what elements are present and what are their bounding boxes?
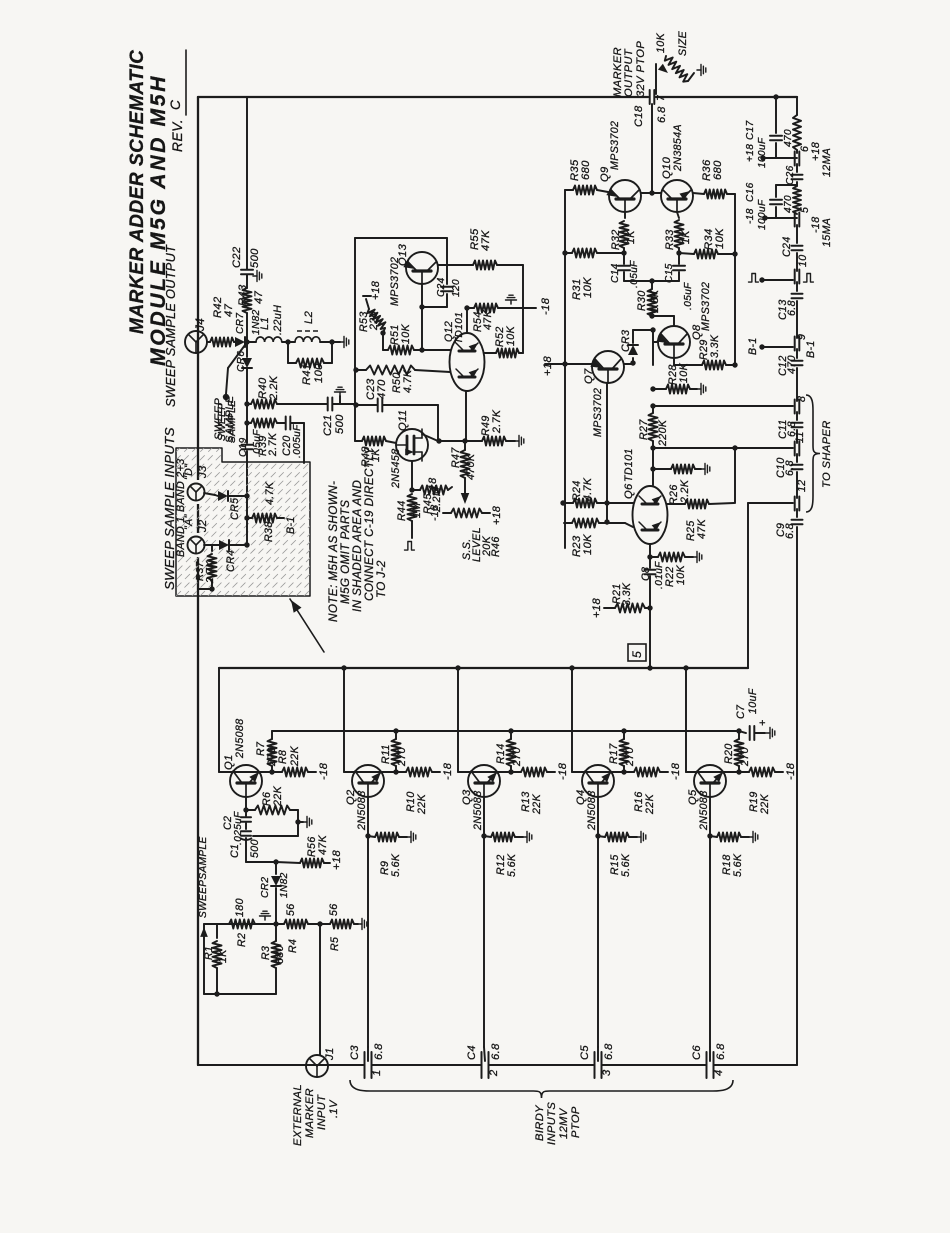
wire Q11 drain net [422,434,468,444]
svg-text:R5: R5 [329,937,341,951]
resistor R15 [598,832,646,843]
ground R54 [506,295,517,304]
label R4 [287,939,299,953]
label C16 [745,182,756,202]
note text line5 [375,560,388,598]
label Q7 type [592,388,604,437]
svg-text:R43: R43 [237,284,249,306]
ground C21 stub [335,387,346,404]
label C8 [640,567,652,581]
label CR2 [260,877,271,898]
label Q10 type [672,124,684,172]
svg-text:270: 270 [739,747,751,767]
label CR7 type [251,309,262,335]
svg-text:BAND 1: BAND 1 [175,516,187,557]
wire pin8 row [653,405,780,407]
wire Q6 lower base [607,523,633,527]
svg-text:MPS3702: MPS3702 [700,282,712,331]
size pot [656,56,706,94]
transistor Q12 dual [450,333,485,391]
wire bottom bus seg C5 [489,1064,595,1066]
label Q6 type [623,448,635,482]
svg-text:56: 56 [285,903,297,916]
wire pin12 row [748,502,793,504]
label R16 [633,791,645,812]
potentiometer R46 [443,509,490,518]
transistor Q10 [661,180,693,212]
svg-text:10uF: 10uF [747,688,759,714]
capacitor C10 [775,454,803,498]
label C4 value [490,1043,502,1060]
svg-text:C26: C26 [785,165,796,185]
label -18 (R19) [785,762,797,780]
transistor Q1 [230,765,262,797]
svg-text:OUTPUT: OUTPUT [623,48,635,97]
svg-text:56: 56 [328,903,340,916]
svg-text:C22: C22 [231,246,243,268]
svg-text:47K: 47K [317,834,329,855]
label MARKER [612,47,624,97]
wire Q3 base drop [484,1047,485,1061]
wire Q12 collector up [466,308,468,333]
capacitor pin8 [795,396,808,414]
svg-text:6.8: 6.8 [603,1043,615,1060]
label Q2 [345,789,357,805]
label B-1 (R38) [285,516,297,534]
transistor Q5 [694,765,726,797]
label R26 value [679,479,691,504]
resistor R56 [276,859,330,868]
label R2 value [234,898,246,917]
ground C22 [247,271,262,282]
svg-text:470: 470 [376,379,388,399]
label R48 value [370,448,382,462]
label Q11 type [390,448,402,489]
diode CR6 [242,342,252,404]
transistor Q4 [582,765,614,797]
label -18 (R16) [670,762,682,780]
label Q12 [443,321,455,342]
svg-text:R41: R41 [301,363,313,385]
capacitor C16 stub [762,185,797,221]
wire Q7 collector [624,360,636,365]
label L2 [303,310,315,324]
label C20 [281,435,293,456]
svg-text:+18: +18 [591,598,603,618]
svg-text:47K: 47K [480,230,492,251]
ground R2 [260,911,271,920]
svg-text:10: 10 [797,254,809,267]
svg-text:470K: 470K [465,453,477,480]
svg-text:47K: 47K [482,309,494,330]
capacitor C8 [645,557,656,608]
svg-text:1K: 1K [625,230,637,244]
transistor Q9 [606,180,641,212]
svg-text:4.7K: 4.7K [402,369,414,393]
bus collector supply [272,728,739,733]
wire R6 down [253,822,298,836]
svg-text:2N5088: 2N5088 [234,718,246,759]
transistor Q7 [590,351,624,383]
resistor 470 top [793,115,801,150]
label R10 value [416,793,428,815]
wire C14-C15 join [624,278,679,283]
label C3 pin [371,1069,383,1076]
label C19 sweep [217,403,228,441]
svg-text:2N5088: 2N5088 [472,790,484,831]
label Q8 [691,324,703,340]
label R42 value [223,303,235,317]
pulse stub pin10 [749,274,814,283]
label +18 (R56) [331,850,343,870]
label Q4 type [586,790,598,831]
label R17 value [624,747,636,767]
svg-text:+18: +18 [331,850,343,870]
label R31 [571,278,583,300]
svg-text:-18: -18 [785,762,797,780]
capacitor C22 [241,97,253,274]
label C4 pin [488,1069,500,1077]
label Q10 [661,156,673,179]
svg-text:R14: R14 [495,743,507,764]
brace birdy inputs [350,1080,733,1098]
wire Q9 left rail [564,190,566,548]
svg-text:C7: C7 [735,704,747,719]
label R31 value [582,277,594,298]
label J4 [194,318,207,332]
wire C17 from top [0,0,1,1]
capacitor C9 [775,509,803,1065]
wire R24 to Q6 base [607,502,633,504]
node sweep sample tap [223,394,229,400]
svg-text:SWEEPSAMPLE: SWEEPSAMPLE [198,836,209,918]
wire Q12 upper base [422,349,450,351]
label -18 (mid) [523,297,552,315]
label R23 value [582,534,594,555]
label R25 value [696,518,708,539]
sweep sample arrow [200,924,276,938]
wire node5 vertical [649,608,651,668]
label R27 [638,419,650,440]
svg-text:CR3: CR3 [620,330,632,352]
svg-text:10K: 10K [678,362,690,383]
resistor R38 [247,514,284,523]
label 12MV [558,1107,570,1139]
wire right border bus [0,0,1,1]
node main LC node [244,339,249,344]
capacitor pin6 [795,146,811,166]
arrow R47 wiper [461,493,470,504]
label .1V [328,1099,340,1118]
svg-text:1K: 1K [680,230,692,244]
label REV [170,119,185,152]
label R10 [405,791,417,812]
svg-text:2N5458: 2N5458 [390,448,402,489]
label CR4 [225,550,237,572]
label C3 value [373,1043,385,1060]
svg-text:R27: R27 [638,419,650,440]
svg-text:3.3K: 3.3K [621,582,633,606]
label R33 value [680,230,692,244]
label CR5 [229,498,241,520]
svg-text:+: + [757,719,769,726]
svg-text:TO J-2: TO J-2 [375,560,388,598]
resistor R37 [198,545,217,592]
resistor R51 [383,346,425,355]
svg-text:R4: R4 [287,939,299,953]
svg-text:5.6K: 5.6K [620,853,632,877]
label R12 [495,854,507,875]
note arrow [287,597,324,652]
svg-text:2.7K: 2.7K [267,432,279,457]
label C5 pin [601,1069,613,1076]
wire Q6 emitter [647,544,652,560]
label TO SHAPER [821,420,833,488]
resistor R26 [650,464,710,475]
label C16 value [757,199,768,230]
wire Q8 base [653,330,658,365]
svg-text:MPS3702: MPS3702 [592,388,604,437]
wire Q2 emitter [365,797,370,1047]
svg-text:470: 470 [783,129,794,147]
label R46 [490,536,502,557]
svg-text:CR7: CR7 [235,313,246,334]
resistor R3 [272,924,281,994]
label R8 [277,750,289,764]
svg-text:10K: 10K [655,32,667,53]
label Q6 [623,483,635,499]
label -18 (R8) [318,762,330,780]
label +18 (Q7) [542,356,554,376]
svg-text:12: 12 [796,479,808,492]
label 32V PTOP [635,41,647,97]
label SIZE [677,30,689,56]
svg-text:2N5088: 2N5088 [586,790,598,831]
label -18 (R45) [427,477,439,494]
svg-text:6.8: 6.8 [784,523,796,539]
svg-text:Q6: Q6 [623,483,635,499]
wire middle block top [355,238,447,441]
svg-text:270: 270 [624,747,636,767]
svg-text:-18: -18 [442,762,454,780]
label R28 value [678,362,690,383]
label Q1 type [234,718,246,759]
capacitor C20 [277,417,304,430]
sweep sample tap wire [226,345,245,394]
svg-text:22K: 22K [272,785,284,807]
svg-text:10K: 10K [582,534,594,555]
label C19 value [252,429,263,457]
label R28 [667,364,679,385]
label R7 value [266,747,278,767]
label BIRDY [534,1104,546,1141]
label R6 [261,792,273,806]
capacitor C14 [618,253,630,281]
label -18 15MA [810,216,833,247]
svg-text:22K: 22K [644,793,656,815]
label Q8 type [700,282,712,331]
bus node5 horizontal [219,665,748,670]
label R14 value [511,747,523,767]
label R43 value [253,290,265,304]
label BAND 2+3 [175,458,187,512]
label R5 [329,937,341,951]
resistor R36 [693,190,735,199]
label C19 sample [227,400,238,443]
resistor R35 [565,186,608,195]
node L1-L2 [285,339,290,344]
svg-text:120: 120 [451,279,462,297]
label R33 [664,229,676,250]
capacitor C18 [633,90,668,127]
label R45 [422,493,434,514]
svg-text:6.8: 6.8 [784,460,796,476]
node L2 right [329,339,334,344]
label R20 [723,743,735,764]
svg-text:500: 500 [249,248,261,268]
label R8 value [289,745,301,767]
label C7 value [747,688,759,714]
svg-text:C18: C18 [633,105,645,127]
svg-text:-18: -18 [540,297,552,315]
resistor R20 [735,731,744,772]
label R6 value [272,785,284,807]
svg-text:270: 270 [396,747,408,767]
svg-text:C3: C3 [349,1045,361,1060]
wire top border [198,96,648,98]
label SWEEPSAMPLE [198,836,209,918]
svg-text:680: 680 [274,945,286,964]
resistor R48 [355,437,396,446]
svg-text:6.8: 6.8 [786,300,798,316]
wire R1 R3 bottom [204,938,276,997]
wire pin11 stub [780,447,793,449]
resistor R53 [366,299,385,333]
svg-text:R3: R3 [260,946,272,960]
svg-text:47: 47 [253,290,265,304]
svg-text:+18: +18 [745,144,756,162]
wire right rail to R25 [734,448,736,503]
svg-text:680: 680 [580,160,592,180]
label R36 [701,159,713,181]
label R30 [636,290,648,311]
label PTOP [570,1106,582,1138]
label Q13 type [389,257,401,306]
svg-text:270: 270 [511,747,523,767]
svg-text:22K: 22K [289,745,301,767]
svg-text:180: 180 [234,898,246,917]
svg-text:100uF: 100uF [757,137,768,168]
svg-text:TD101: TD101 [623,448,635,482]
transistor Q2 [352,765,384,797]
resistor R19 [739,768,783,777]
label R30 value [649,289,661,313]
wire bottom bus seg C3 [198,1064,365,1066]
label R55 value [480,230,492,251]
capacitor C25 [441,265,453,307]
wire CR5 to R38 [244,496,249,521]
svg-text:MARKER ADDER SCHEMATIC: MARKER ADDER SCHEMATIC [127,50,148,334]
svg-text:4.7K: 4.7K [264,481,276,505]
svg-text:Q7: Q7 [583,368,595,384]
svg-text:100uF: 100uF [757,199,768,230]
note text line2 [339,500,352,604]
svg-text:.005uF: .005uF [292,424,303,458]
svg-text:C24: C24 [436,277,447,297]
label MARKER (J1) [304,1088,316,1138]
wire Q9-Q10 [641,190,661,195]
label R56 [306,836,318,857]
svg-text:+18: +18 [491,506,503,525]
core L2 dashed [297,330,318,332]
wire R38 node down [244,518,249,548]
label +18 (R46) [491,506,503,525]
label Q11 [397,410,409,431]
capacitor pin9 [795,334,808,351]
svg-text:6.8: 6.8 [490,1043,502,1060]
resistor R27 [649,406,658,448]
svg-text:R47: R47 [450,447,462,468]
svg-text:SAMPLE: SAMPLE [227,400,238,443]
label SS [461,538,473,560]
resistor R31 [562,249,624,258]
label R48 [360,446,372,467]
label Q9 type [609,121,621,170]
svg-text:2: 2 [488,1069,500,1077]
wire C18 down [651,104,653,193]
svg-text:10K: 10K [675,564,687,585]
label R49 value [491,409,503,434]
label Q7 [583,368,595,384]
inductor L1 [247,337,288,342]
label C6 pin [713,1069,725,1076]
capacitor C24 [781,225,803,271]
resistor R47 [461,441,470,496]
svg-text:MARKER: MARKER [304,1088,316,1138]
label R3 [260,946,272,960]
resistor R32 [620,212,629,253]
label R35 [569,159,581,181]
label INPUTS [546,1102,558,1145]
shaded area hatching [16,448,556,596]
label R43 [237,284,249,306]
resistor R33 [675,212,684,253]
resistor R6 [246,806,301,825]
pulse glyph R44 [405,542,415,551]
svg-text:7: 7 [656,95,667,101]
wire Q4 base drop [597,1047,599,1061]
B-1 stub pin9 [747,337,817,358]
wire Q13 base [419,284,447,350]
svg-text:47K: 47K [696,518,708,539]
wire left border [197,97,199,1065]
svg-text:-18: -18 [318,762,330,780]
diode CR2 [271,862,281,924]
svg-text:3: 3 [601,1069,613,1076]
resistor R44 [408,494,417,538]
resistor R22 [650,552,702,563]
svg-text:C21: C21 [322,414,334,436]
capacitor pin5 [795,207,811,227]
label R29 value [709,334,721,358]
label R21 [611,583,623,604]
svg-text:22K: 22K [759,793,771,815]
label J3 [197,465,209,479]
label L1 value [272,305,284,335]
svg-text:2.2K: 2.2K [679,479,691,504]
svg-text:REV.: REV. [170,119,185,152]
capacitor C23 [356,399,438,412]
